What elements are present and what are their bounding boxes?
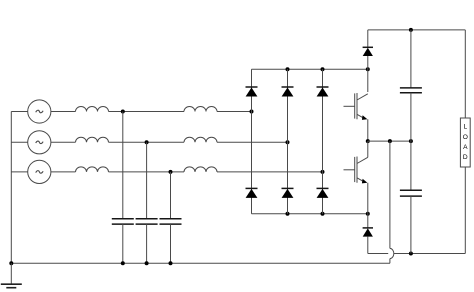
node top rail igbt rail	[366, 67, 370, 71]
wire phase C stub	[11, 171, 27, 173]
svg-text:O: O	[463, 134, 468, 141]
node dc top cap rail	[409, 28, 413, 32]
wire phase C to leg 3	[217, 171, 323, 173]
wire bridge top rail	[252, 68, 368, 70]
capacitor C4	[400, 88, 422, 93]
wire phase B to bridge	[109, 141, 185, 143]
transistor Q2	[344, 141, 368, 183]
node C1 ground	[121, 261, 125, 265]
wire phase B to leg 2	[217, 141, 288, 143]
wire bridge bottom rail	[252, 213, 368, 215]
capacitor C1	[112, 219, 134, 224]
wire load rail upper	[464, 30, 466, 118]
ac source V1	[28, 100, 51, 123]
node phase C filter tap	[169, 170, 173, 174]
ac source V3	[28, 160, 51, 183]
diode D2	[246, 188, 258, 198]
wire C3 to ground rail	[170, 224, 172, 263]
ground	[1, 263, 22, 288]
node midpoint igbt rail	[366, 139, 370, 143]
diode D3	[282, 87, 294, 97]
wire emitter Q2 to bottom rail	[367, 183, 369, 228]
wire C5 to negative rail	[410, 196, 412, 253]
wire phase C to L3	[51, 171, 76, 173]
node negative rail cap rail	[409, 252, 413, 256]
node phase B leg 2	[286, 140, 290, 144]
wire load rail lower	[464, 167, 466, 254]
wire bridge leg 2	[287, 69, 289, 214]
diode D8	[363, 228, 373, 237]
inductor L4	[184, 107, 217, 112]
node C3 ground	[169, 261, 173, 265]
wire negative rail right segment	[394, 253, 466, 255]
capacitor C5	[400, 190, 422, 196]
svg-text:D: D	[463, 154, 468, 161]
svg-text:A: A	[463, 144, 468, 151]
node bottom rail leg 3	[321, 212, 325, 216]
wire C4 to midpoint	[410, 93, 412, 191]
diode D4	[282, 188, 294, 198]
ac source V2	[28, 131, 51, 154]
wire drop to bottom rail	[389, 259, 391, 264]
node midpoint cap rail	[409, 139, 413, 143]
wire C2 to ground rail	[146, 224, 148, 263]
svg-text:L: L	[463, 124, 467, 131]
wire dc top rail	[368, 29, 466, 31]
node bottom rail leg 2	[286, 212, 290, 216]
node top rail leg 3	[321, 67, 325, 71]
wire left input rail	[10, 112, 12, 264]
capacitor C3	[160, 219, 182, 224]
node phase A leg 1	[250, 110, 254, 114]
inductor L3	[76, 167, 109, 172]
inductor L2	[76, 137, 109, 142]
inductor L5	[184, 137, 217, 142]
node midpoint down line	[388, 139, 392, 143]
wire D7 to collector Q1	[367, 56, 369, 92]
wire D8 to negative rail corner	[367, 237, 369, 254]
wire phase B stub	[11, 141, 27, 143]
wire midpoint horizontal	[368, 140, 411, 142]
node top rail leg 2	[286, 67, 290, 71]
wire phase C to bridge	[109, 171, 185, 173]
wire emitter Q1 to midpoint	[367, 119, 369, 141]
wire hop over negative rail	[390, 248, 394, 258]
node ground junction	[9, 261, 13, 265]
diode D5	[317, 87, 329, 97]
wire phase A to bridge	[109, 111, 185, 113]
diode D1	[246, 87, 258, 97]
wire filter tap A vertical	[122, 112, 124, 219]
wire rail above D7	[367, 30, 369, 47]
wire phase A to L1	[51, 111, 76, 113]
node bottom rail igbt rail	[366, 212, 370, 216]
wire phase A to leg 1	[217, 111, 252, 113]
load RL	[460, 118, 470, 167]
inductor L6	[184, 167, 217, 172]
wire bridge leg 3	[322, 69, 324, 214]
diode D6	[317, 188, 329, 198]
node C2 ground	[145, 261, 149, 265]
wire dc cap rail upper	[410, 30, 412, 88]
node phase B filter tap	[145, 140, 149, 144]
wire C1 to ground rail	[122, 224, 124, 263]
wire phase B to L2	[51, 141, 76, 143]
diode D7	[363, 47, 373, 56]
node phase A filter tap	[121, 110, 125, 114]
transistor Q1	[344, 93, 368, 120]
node phase C leg 3	[321, 170, 325, 174]
wire filter tap C vertical	[170, 172, 172, 219]
wire phase A stub	[11, 111, 27, 113]
wire negative rail left segment	[368, 253, 388, 255]
wire bridge leg 1	[251, 69, 253, 214]
wire filter tap B vertical	[146, 142, 148, 218]
wire midpoint to ground drop	[389, 141, 391, 248]
inductor L1	[76, 107, 109, 112]
wire bottom ground rail	[11, 262, 390, 264]
capacitor C2	[136, 219, 158, 224]
